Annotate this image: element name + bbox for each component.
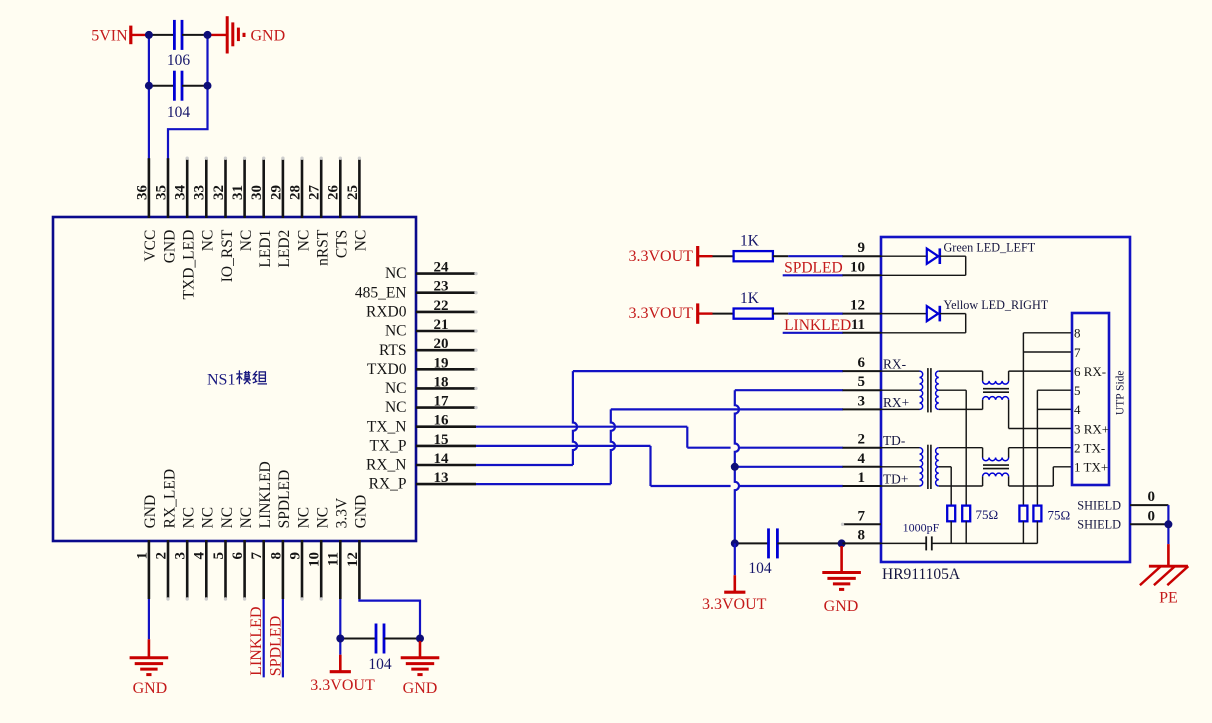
UTP row label 6 RX- xyxy=(1074,364,1106,379)
wire TX_P (pin15) to U2 TD+ (pin1) xyxy=(476,446,843,486)
svg-text:NC: NC xyxy=(385,323,407,340)
svg-text:3: 3 xyxy=(858,393,866,409)
svg-text:NC: NC xyxy=(385,265,407,282)
svg-text:104: 104 xyxy=(748,560,772,577)
svg-text:10: 10 xyxy=(307,552,323,567)
U2 pin 2 left xyxy=(843,432,882,448)
capacitor C1 106 xyxy=(149,20,208,69)
U1 pin 34 (TXD_LED) top xyxy=(173,157,198,300)
ground symbol GND (bias) xyxy=(822,546,861,615)
svg-text:RX_LED: RX_LED xyxy=(161,469,178,528)
svg-text:0: 0 xyxy=(1148,489,1156,505)
U1 pin 27 (nRST) top xyxy=(307,157,332,266)
ground symbol GND (pin 1) xyxy=(130,639,169,697)
svg-text:7: 7 xyxy=(249,552,265,560)
U2 pin 12 left xyxy=(843,298,882,314)
svg-text:NC: NC xyxy=(385,399,407,416)
power port 5VIN xyxy=(91,26,149,45)
U1 pin 33 (NC) top xyxy=(192,157,217,252)
U2 pin 10 left xyxy=(843,259,882,275)
svg-text:3.3VOUT: 3.3VOUT xyxy=(628,305,693,322)
net label SPDLED + wire to U2 pin 10 xyxy=(783,260,843,277)
capacitor C2 104 xyxy=(149,71,208,121)
U1 pin 20 (RTS) right xyxy=(379,336,478,359)
svg-text:NC: NC xyxy=(353,230,370,252)
label 75Ω (pair 2) xyxy=(1048,507,1071,522)
choke L2 (TD) + routing to UTP rows 2/1 xyxy=(939,448,1072,486)
U1 pin 35 (GND) top xyxy=(153,158,178,263)
label UTP Side (rotated) xyxy=(1114,370,1126,415)
svg-text:VCC: VCC xyxy=(142,230,159,262)
svg-text:11: 11 xyxy=(851,317,865,333)
transformer T1 (RX) windings + core xyxy=(881,368,939,412)
power port 3.3VOUT (bottom) xyxy=(310,655,375,694)
svg-text:1K: 1K xyxy=(740,232,760,249)
U1 pin 3 (NC) bottom xyxy=(173,507,198,601)
connector U2 box HR911105A xyxy=(881,237,1130,562)
svg-text:GND: GND xyxy=(161,230,178,264)
UTP row label 3 RX+ xyxy=(1074,421,1109,436)
svg-text:Yellow LED_RIGHT: Yellow LED_RIGHT xyxy=(944,298,1049,312)
U1 pin 4 (NC) bottom xyxy=(192,507,217,601)
U1 pin 8 (SPDLED) bottom xyxy=(268,470,293,599)
svg-text:31: 31 xyxy=(230,185,246,200)
svg-text:NC: NC xyxy=(200,230,217,252)
svg-text:5: 5 xyxy=(858,374,866,390)
svg-text:5: 5 xyxy=(1074,383,1081,398)
svg-text:25: 25 xyxy=(345,185,361,200)
U1 pin 7 (LINKLED) bottom xyxy=(249,461,274,599)
wire RX_N (pin14) to U2 RX- (pin6) xyxy=(476,371,843,465)
wire T2 center tap to resistor R3 xyxy=(939,467,951,506)
U2 pin 1 left xyxy=(843,470,882,486)
U1 pin 9 (NC) bottom xyxy=(287,507,312,601)
wire SHIELD to PE xyxy=(1164,505,1172,544)
svg-text:2 TX-: 2 TX- xyxy=(1074,441,1105,456)
U2 pin 5 left xyxy=(843,374,882,390)
wire T1 center tap to resistor R4 xyxy=(939,390,966,505)
svg-text:24: 24 xyxy=(434,260,450,276)
svg-text:34: 34 xyxy=(173,185,189,201)
svg-text:RX_P: RX_P xyxy=(369,476,407,493)
svg-text:SPDLED: SPDLED xyxy=(276,470,293,529)
module U1 box NS1 xyxy=(53,217,416,541)
U2 pin name RX+ xyxy=(883,395,909,410)
svg-text:485_EN: 485_EN xyxy=(355,284,407,301)
svg-text:20: 20 xyxy=(434,336,449,352)
svg-text:RX+: RX+ xyxy=(883,395,909,410)
svg-text:29: 29 xyxy=(268,185,284,200)
svg-text:PE: PE xyxy=(1159,589,1178,606)
U1 pin 19 (TXD0) right xyxy=(367,355,478,378)
svg-text:22: 22 xyxy=(434,298,449,314)
U1 pin 15 (TX_P) right xyxy=(369,432,476,455)
junction dots C3 xyxy=(336,635,424,643)
svg-text:IO_RST: IO_RST xyxy=(219,229,236,282)
resistor R4 75Ω body xyxy=(962,506,970,544)
svg-text:3.3VOUT: 3.3VOUT xyxy=(702,596,767,613)
svg-text:3.3VOUT: 3.3VOUT xyxy=(310,677,375,694)
U2 pin 3 left xyxy=(843,393,882,409)
svg-text:SPDLED: SPDLED xyxy=(784,260,843,277)
svg-text:SHIELD: SHIELD xyxy=(1077,499,1121,513)
U1 pin 13 (RX_P) right xyxy=(369,470,476,493)
svg-text:TXD_LED: TXD_LED xyxy=(181,230,198,300)
U1 pin 16 (TX_N) right xyxy=(367,413,476,436)
ground symbol GND (bottom right of C3) xyxy=(401,641,440,697)
UTP row label 1 TX+ xyxy=(1074,460,1108,475)
svg-text:104: 104 xyxy=(167,104,191,121)
wire UTP rows 8/7 to resistor R5 xyxy=(1023,333,1072,506)
U1 pin 6 (NC) bottom xyxy=(230,507,255,601)
wire GND to pin 35 xyxy=(168,35,208,160)
ground symbol GND (top, rotated) xyxy=(208,16,286,53)
svg-text:1000pF: 1000pF xyxy=(903,520,940,534)
svg-text:1: 1 xyxy=(134,552,150,560)
wire pin 1 to GND xyxy=(148,599,150,639)
U1 pin 10 (NC) bottom xyxy=(307,507,332,601)
svg-text:GND: GND xyxy=(133,680,168,697)
junction dots 5VIN/GND net xyxy=(145,31,212,90)
resistor R3 75Ω body xyxy=(947,506,955,544)
UTP row label 8 xyxy=(1074,326,1081,341)
svg-text:14: 14 xyxy=(434,451,450,467)
svg-text:LED1: LED1 xyxy=(257,230,274,268)
U2 pin name SHIELD (lower) xyxy=(1077,518,1121,532)
svg-text:GND: GND xyxy=(251,27,286,44)
wire U2 pin5/pin4 center tap to bias xyxy=(735,390,843,543)
U1 pin 2 (RX_LED) bottom xyxy=(153,469,178,601)
resistor R6 75Ω body xyxy=(1033,506,1041,544)
svg-text:TD-: TD- xyxy=(883,433,905,448)
svg-text:1K: 1K xyxy=(740,290,760,307)
svg-text:SPDLED: SPDLED xyxy=(267,616,284,676)
UTP row label 7 xyxy=(1074,345,1081,360)
svg-text:NC: NC xyxy=(315,507,332,529)
svg-text:GND: GND xyxy=(403,680,438,697)
wire TX_N (pin16) to U2 TD- (pin2) xyxy=(476,427,843,448)
svg-text:8: 8 xyxy=(1074,326,1081,341)
svg-text:nRST: nRST xyxy=(315,229,332,266)
svg-text:TD+: TD+ xyxy=(883,471,908,486)
module U1 name NS1模组 (CJK drawn as paths) xyxy=(207,370,267,388)
U2 pin 0 SHIELD (lower) xyxy=(1130,508,1168,524)
svg-text:GND: GND xyxy=(824,598,859,615)
svg-text:3.3VOUT: 3.3VOUT xyxy=(628,248,693,265)
svg-text:27: 27 xyxy=(307,185,323,201)
transformer T2 (TD) windings + core xyxy=(881,445,939,489)
svg-text:4: 4 xyxy=(858,451,866,467)
svg-text:CTS: CTS xyxy=(334,230,351,258)
svg-text:NC: NC xyxy=(181,507,198,529)
svg-text:32: 32 xyxy=(211,185,227,200)
svg-text:7: 7 xyxy=(858,508,866,524)
U1 pin 29 (LED2) top xyxy=(268,157,293,268)
svg-text:17: 17 xyxy=(434,394,450,410)
svg-text:36: 36 xyxy=(134,185,150,201)
svg-text:4: 4 xyxy=(1074,402,1081,417)
svg-text:3 RX+: 3 RX+ xyxy=(1074,421,1109,436)
svg-text:2: 2 xyxy=(858,432,866,448)
U1 pin 12 (GND) bottom xyxy=(345,495,370,599)
UTP Side inner box xyxy=(1072,313,1109,485)
svg-text:SHIELD: SHIELD xyxy=(1077,518,1121,532)
U1 pin 31 (NC) top xyxy=(230,157,255,252)
capacitor C4 104 (bias) xyxy=(735,528,843,577)
svg-text:TX_N: TX_N xyxy=(367,418,407,435)
wire net LINKLED (pin 7) xyxy=(263,599,265,677)
capacitor C5 1000pF + bottom rail xyxy=(881,520,1037,550)
svg-text:1 TX+: 1 TX+ xyxy=(1074,460,1108,475)
svg-text:2: 2 xyxy=(153,552,169,560)
svg-text:30: 30 xyxy=(249,185,265,200)
svg-text:23: 23 xyxy=(434,279,449,295)
svg-text:GND: GND xyxy=(142,495,159,529)
svg-text:3.3V: 3.3V xyxy=(334,497,351,528)
label 75Ω (pair 1) xyxy=(976,507,999,522)
U2 pin 11 left xyxy=(843,317,882,333)
choke L1 (RX) + routing to UTP rows 6/3 xyxy=(939,371,1072,428)
U2 pin 6 left xyxy=(843,355,882,371)
U1 pin 17 (NC) right xyxy=(385,394,478,417)
svg-text:LED2: LED2 xyxy=(276,230,293,268)
wire net SPDLED (pin 8) xyxy=(282,599,284,677)
svg-text:LINKLED: LINKLED xyxy=(784,317,851,334)
svg-text:26: 26 xyxy=(326,185,342,201)
U1 pin 22 (RXD0) right xyxy=(366,298,478,321)
svg-text:6: 6 xyxy=(858,355,866,371)
svg-text:NC: NC xyxy=(238,230,255,252)
wire pin 12 to GND xyxy=(359,599,420,641)
capacitor C3 104 (bottom) xyxy=(340,624,420,673)
svg-text:35: 35 xyxy=(153,185,169,200)
wire 5VIN to pin 36 (VCC) xyxy=(148,35,150,160)
svg-text:10: 10 xyxy=(850,259,865,275)
power port 3.3VOUT + resistor R1 1K (SPDLED) xyxy=(628,232,788,266)
U1 pin 36 (VCC) top xyxy=(134,158,159,261)
svg-text:75Ω: 75Ω xyxy=(1048,507,1071,522)
svg-text:RX_N: RX_N xyxy=(366,457,406,474)
svg-text:7: 7 xyxy=(1074,345,1081,360)
U2 pin name TD+ xyxy=(883,471,908,486)
wire bias to 3.3VOUT xyxy=(734,543,736,575)
svg-text:LINKLED: LINKLED xyxy=(248,606,265,675)
junction dot center tap xyxy=(731,463,739,471)
U1 pin 32 (IO_RST) top xyxy=(211,157,236,283)
svg-text:21: 21 xyxy=(434,317,449,333)
U1 pin 28 (NC) top xyxy=(287,157,312,252)
UTP row label 4 xyxy=(1074,402,1081,417)
U2 pin name TD- xyxy=(883,433,905,448)
svg-text:RXD0: RXD0 xyxy=(366,304,407,321)
resistor R5 75Ω body xyxy=(1019,506,1027,544)
UTP row label 2 TX- xyxy=(1074,441,1105,456)
U1 pin 21 (NC) right xyxy=(385,317,478,340)
svg-text:106: 106 xyxy=(167,52,191,69)
wire RX_P (pin13) to U2 RX+ (pin3) xyxy=(476,409,843,484)
U1 pin 5 (NC) bottom xyxy=(211,507,236,601)
wire R2 to U2 pin 12 xyxy=(788,313,843,315)
svg-text:19: 19 xyxy=(434,355,449,371)
svg-text:GND: GND xyxy=(353,495,370,529)
svg-text:11: 11 xyxy=(326,552,342,566)
net label LINKLED (rotated) xyxy=(248,606,265,675)
svg-text:13: 13 xyxy=(434,470,449,486)
svg-text:33: 33 xyxy=(192,185,208,200)
svg-text:0: 0 xyxy=(1148,508,1156,524)
U1 pin 25 (NC) top xyxy=(345,157,370,252)
svg-text:6 RX-: 6 RX- xyxy=(1074,364,1106,379)
svg-text:NC: NC xyxy=(295,507,312,529)
LED D2 Yellow LED_RIGHT xyxy=(881,298,1049,333)
U2 pin name SHIELD (upper) xyxy=(1077,499,1121,513)
svg-text:16: 16 xyxy=(434,413,450,429)
svg-text:8: 8 xyxy=(858,527,866,543)
svg-text:RTS: RTS xyxy=(379,342,407,359)
svg-text:3: 3 xyxy=(173,552,189,560)
U2 pin 4 left xyxy=(843,451,882,467)
svg-text:6: 6 xyxy=(230,552,246,560)
svg-text:75Ω: 75Ω xyxy=(976,507,999,522)
U2 pin 0 SHIELD (upper) xyxy=(1130,489,1168,505)
U1 pin 26 (CTS) top xyxy=(326,157,351,259)
U1 pin 30 (LED1) top xyxy=(249,157,274,268)
svg-text:TX_P: TX_P xyxy=(369,438,406,455)
svg-text:9: 9 xyxy=(858,240,866,256)
svg-text:NC: NC xyxy=(238,507,255,529)
svg-text:104: 104 xyxy=(368,656,392,673)
svg-text:15: 15 xyxy=(434,432,449,448)
net label SPDLED (rotated) xyxy=(267,616,284,676)
U1 pin 1 (GND) bottom xyxy=(134,495,159,599)
svg-text:NS1: NS1 xyxy=(207,372,235,389)
svg-text:8: 8 xyxy=(268,552,284,560)
svg-text:NC: NC xyxy=(200,507,217,529)
wire R1 to U2 pin 9 xyxy=(788,255,843,257)
power port 3.3VOUT + resistor R2 1K (LINKLED) xyxy=(628,290,788,324)
U2 pin 8 left xyxy=(843,527,882,543)
U2 pin name RX- xyxy=(883,357,906,372)
U2 name HR911105A xyxy=(882,566,961,583)
wire UTP rows 5/4 to resistor R6 xyxy=(1037,390,1072,505)
svg-text:UTP Side: UTP Side xyxy=(1114,370,1126,415)
ground symbol PE (chassis) xyxy=(1140,544,1188,606)
svg-text:12: 12 xyxy=(345,552,361,567)
power port 3.3VOUT (bias) xyxy=(702,575,767,613)
svg-text:28: 28 xyxy=(287,185,303,200)
svg-text:RX-: RX- xyxy=(883,357,906,372)
svg-text:NC: NC xyxy=(385,380,407,397)
svg-text:9: 9 xyxy=(287,552,303,560)
UTP row label 5 xyxy=(1074,383,1081,398)
U1 pin 14 (RX_N) right xyxy=(366,451,476,474)
wire pin 11 to 3.3VOUT xyxy=(339,599,341,655)
U2 pin 9 left xyxy=(843,240,882,256)
svg-text:12: 12 xyxy=(850,298,865,314)
net label LINKLED + wire to U2 pin 11 xyxy=(783,317,852,334)
U1 pin 23 (485_EN) right xyxy=(355,279,478,302)
svg-text:Green LED_LEFT: Green LED_LEFT xyxy=(944,241,1036,255)
svg-text:5VIN: 5VIN xyxy=(91,27,128,44)
U1 pin 11 (3.3V) bottom xyxy=(326,497,351,599)
U1 pin 24 (NC) right xyxy=(385,260,478,283)
U2 pin 7 left xyxy=(841,508,881,526)
junction dots bias rail xyxy=(731,539,846,547)
svg-text:TXD0: TXD0 xyxy=(367,361,407,378)
svg-text:18: 18 xyxy=(434,374,449,390)
svg-text:4: 4 xyxy=(192,552,208,560)
svg-text:HR911105A: HR911105A xyxy=(882,566,961,583)
svg-text:1: 1 xyxy=(858,470,866,486)
svg-text:NC: NC xyxy=(295,230,312,252)
svg-text:5: 5 xyxy=(211,552,227,560)
svg-text:NC: NC xyxy=(219,507,236,529)
svg-text:LINKLED: LINKLED xyxy=(257,461,274,528)
LED D1 Green LED_LEFT xyxy=(881,241,1036,276)
U1 pin 18 (NC) right xyxy=(385,374,478,397)
